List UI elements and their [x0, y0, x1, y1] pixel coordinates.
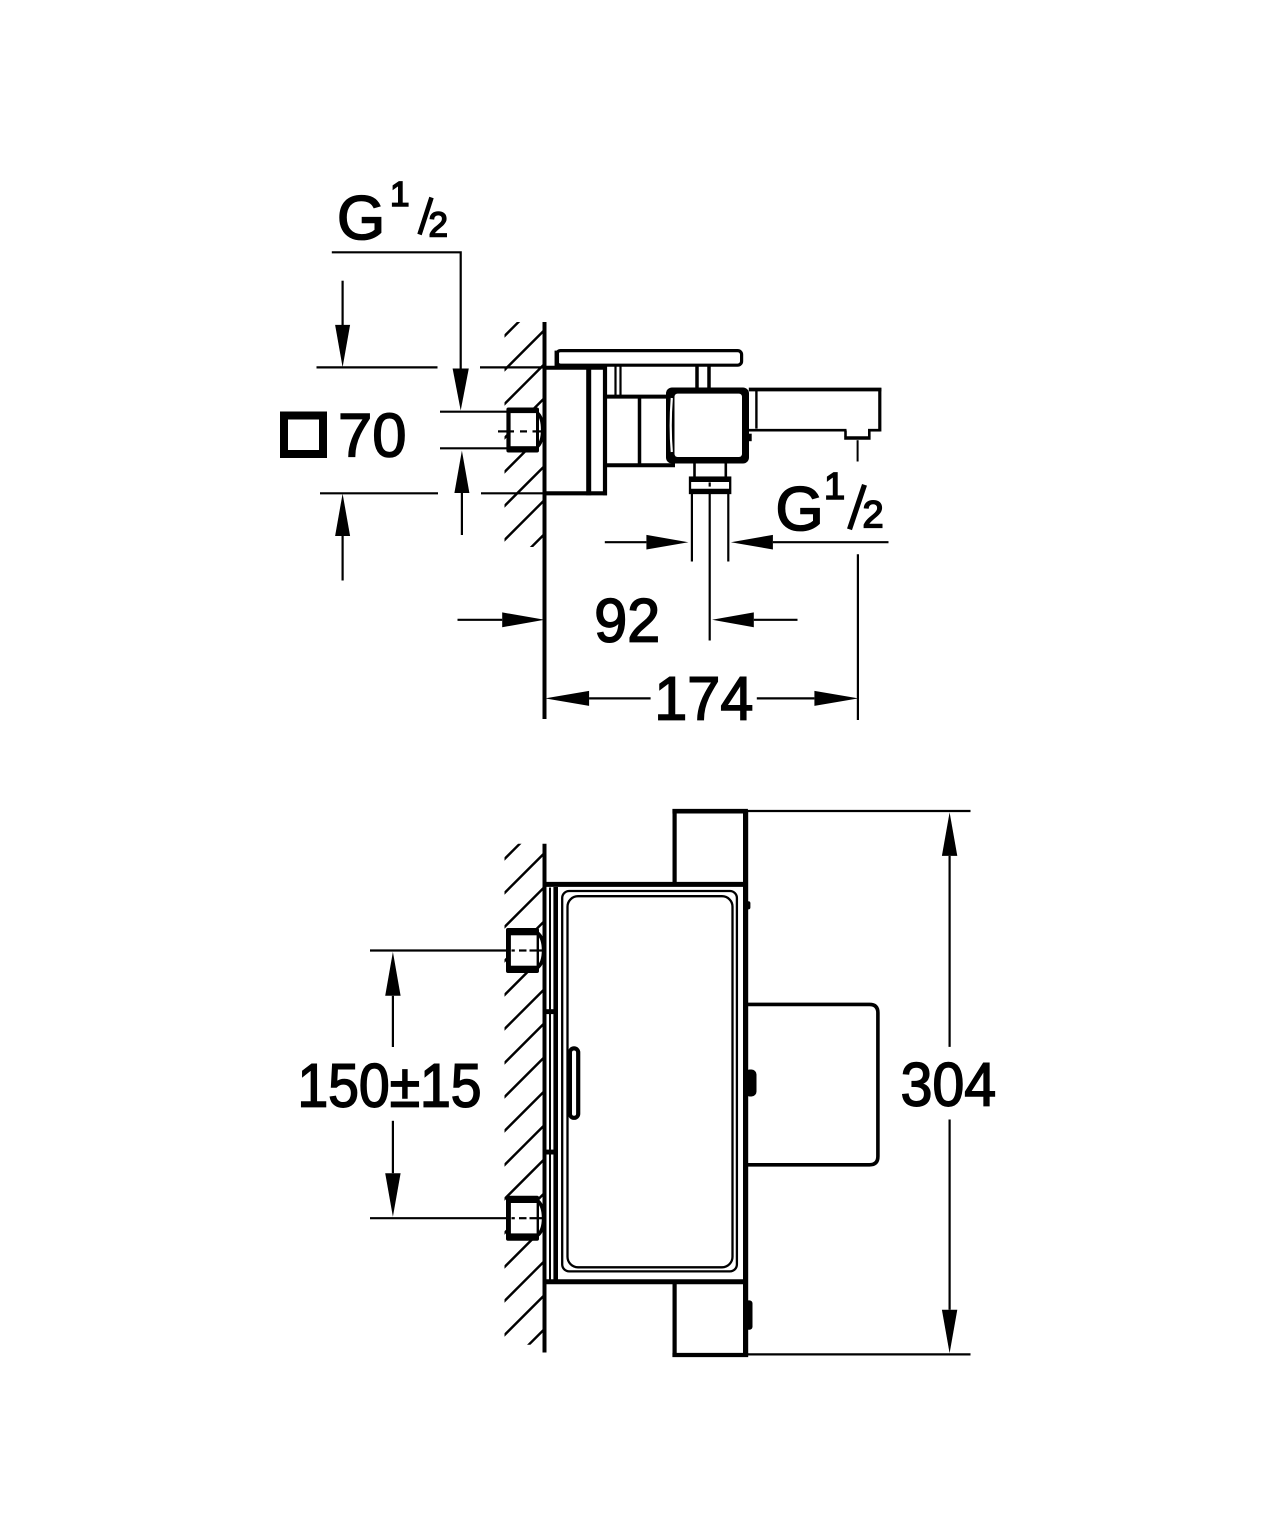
- escutcheon edge thin: [549, 888, 551, 1281]
- dim 70 upper arrow: [335, 281, 350, 368]
- text 150±15: [302, 1064, 480, 1108]
- escutcheon flange side view: [547, 366, 608, 496]
- wall line side view: [543, 322, 547, 719]
- union nut plan upper centerline: [512, 949, 543, 951]
- leader arrowhead G1/2 top: [453, 369, 469, 411]
- hose nut: [690, 478, 730, 493]
- text 174: [659, 677, 752, 719]
- leader line G1/2 top: [332, 252, 461, 368]
- shelf side view: [557, 351, 742, 368]
- dim 150 extension lower: [370, 1217, 508, 1219]
- label G1/2 hose: [779, 473, 882, 531]
- extension line escutcheon bottom y493: [320, 492, 545, 494]
- label G1/2 top: [340, 182, 446, 240]
- union nut plan lower cap arc: [537, 1200, 543, 1235]
- fixing tab lower: [545, 1150, 557, 1155]
- square symbol: [284, 416, 323, 455]
- wall line plan view: [543, 844, 547, 1353]
- extension line spout outlet: [857, 554, 859, 720]
- extension lines union nut: [440, 412, 507, 449]
- dim 150 lower arrow: [385, 1121, 400, 1217]
- text 304: [903, 1063, 995, 1107]
- thermostat bar right edge: [743, 811, 748, 1355]
- shelf posts: [616, 366, 710, 397]
- shelf mid border: [562, 891, 737, 1271]
- spout plan view: [746, 1004, 878, 1164]
- shelf inner border: [568, 896, 733, 1267]
- union nut plan lower body: [506, 1196, 539, 1241]
- dim 174 left arrow: [545, 691, 651, 706]
- hose extension lines: [692, 493, 728, 561]
- nub middle: [745, 1070, 757, 1097]
- thermostat bar left edge: [672, 811, 676, 1355]
- dim G1/2 hose left arrow: [605, 535, 689, 550]
- dim 174 right arrow: [757, 691, 859, 706]
- valve body side view: [605, 397, 675, 466]
- dim 304 extension upper: [746, 810, 971, 812]
- arrow union nut bottom: [454, 451, 469, 535]
- extension line escutcheon top y367: [317, 366, 545, 368]
- spout side view: [749, 388, 882, 432]
- thermostat bar bottom edge: [672, 1353, 748, 1357]
- shelf plan bottom edge: [547, 1279, 744, 1284]
- text 70: [341, 413, 404, 457]
- dim 70 lower arrow: [335, 494, 350, 581]
- dim 304 extension lower: [747, 1353, 971, 1355]
- union nut side view body: [506, 408, 539, 453]
- dim 92 right arrow: [712, 612, 797, 627]
- union nut centerline: [498, 430, 542, 432]
- dim 150 extension upper: [370, 949, 508, 951]
- nub bottom: [745, 1300, 753, 1329]
- spout step under cube right edge: [747, 434, 752, 442]
- dim 304 lower arrow: [942, 1120, 957, 1354]
- dim 92 left arrow: [458, 612, 545, 627]
- hose nipple: [695, 464, 726, 478]
- outlet drip line: [857, 440, 859, 461]
- hose centerline: [709, 482, 711, 640]
- text 92: [597, 599, 657, 643]
- handle cube side view: [666, 388, 749, 464]
- union nut plan lower centerline: [512, 1217, 543, 1219]
- wall hatching side view: [500, 296, 545, 579]
- union nut plan upper body: [506, 928, 539, 973]
- shelf plan top edge: [547, 882, 744, 887]
- dim G1/2 hose right arrow: [731, 535, 889, 550]
- union nut plan upper cap arc: [537, 933, 543, 968]
- dim 304 upper arrow: [942, 812, 957, 1047]
- escutcheon edge thick: [553, 887, 558, 1281]
- thermostat bar top edge: [672, 809, 748, 814]
- dim 150 upper arrow: [385, 952, 400, 1047]
- wall hatching plan view: [500, 819, 545, 1374]
- nub top: [746, 901, 751, 909]
- shelf handle capsule: [570, 1048, 578, 1117]
- fixing tab upper: [545, 1009, 557, 1014]
- union nut side view cap arc: [537, 413, 543, 448]
- spout outlet nub: [844, 430, 880, 438]
